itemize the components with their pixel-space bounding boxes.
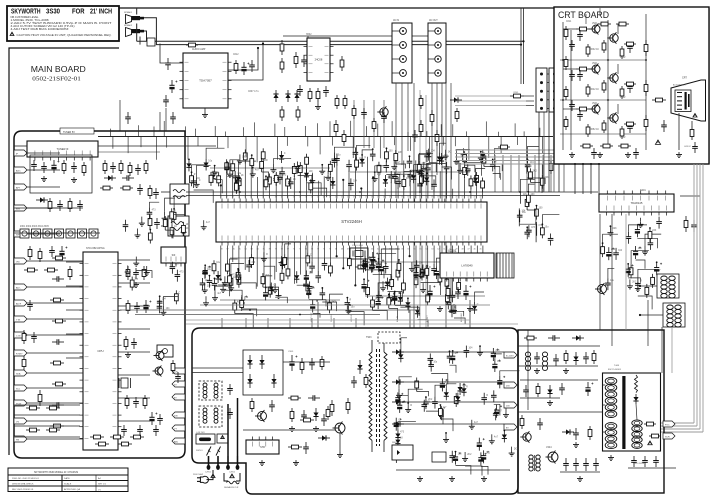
resistor R99 [190,172,194,186]
wire grey bus 2 [186,319,470,321]
ground [259,460,265,466]
wire CRT heater 4 [598,164,600,194]
wire [439,171,441,198]
resistor R66 [377,162,381,176]
wire [680,195,700,197]
junction [251,154,253,156]
capacitor C907 [308,395,320,401]
wire CRT heater 3 [590,164,592,194]
capacitor C156 [361,108,367,119]
title block table [8,468,128,492]
diode D32 [395,436,400,448]
ground [676,152,682,158]
microcontroller IC N701 [80,252,122,450]
wire tab feed 3 [27,186,60,188]
wire audio out R [228,44,263,81]
wire [263,252,265,256]
resistor R103 [250,155,254,169]
wire connector pin 5 [547,107,550,109]
electrolytic capacitor C100 [379,262,387,275]
wire [264,266,275,279]
resistor R111 [417,161,421,175]
resistor R932 [586,84,590,97]
warning symbol [10,32,14,35]
IC N401 E/W correction [599,191,674,216]
diode VD563 [294,90,299,102]
ground [443,437,449,443]
wire [230,281,232,285]
junction [214,278,216,280]
wire deflection mid bus 2 [520,397,560,399]
wire [454,318,465,324]
ground [337,452,343,458]
wire bus drop down 29 [526,137,528,162]
wire [141,217,143,221]
wire [336,165,338,199]
wire FBT tap 2 [603,404,606,406]
svg-text:TDA8145: TDA8145 [631,201,643,205]
wire AV signal 8 [445,83,447,328]
wire [542,164,561,175]
warning symbol [693,114,697,118]
capacitor C116 [525,160,531,172]
net flag 8V [172,394,185,400]
resistor R912b [346,398,350,414]
resistor R43 [46,428,60,432]
inductor LH yoke 2 [669,276,675,298]
wire H bus 1 [186,191,598,193]
diode VD906 [357,360,362,374]
wire key 2 [14,414,80,416]
wire speaker drop 1 [520,8,522,84]
svg-text:22K: 22K [652,230,657,232]
capacitor C449 [559,383,565,395]
wire [426,411,443,424]
wire [278,289,280,293]
resistor R3 [294,52,298,68]
wire audio feed down 2 [165,108,167,131]
wire video bundle 5 [455,163,554,165]
net flag SDA [14,370,27,376]
capacitor C88 [236,270,242,282]
wire [285,244,291,254]
svg-text:V642: V642 [620,97,626,99]
electrolytic capacitor C139 [497,375,505,388]
wire drop 7 [355,318,357,328]
diode D1 [450,97,462,102]
capacitor C153 [432,397,438,409]
svg-text:21: 21 [341,196,343,198]
diode D17 [473,174,478,186]
capacitor CX1 [227,384,233,395]
ground [139,221,145,227]
resistor R114 [420,173,424,187]
speaker terminal block [147,38,155,46]
wire AGC [14,207,83,209]
electrolytic capacitor C84 [203,265,211,278]
junction [610,225,612,227]
resistor R58 [243,149,247,163]
svg-text:AUDIO AMP: AUDIO AMP [192,48,206,51]
wire [137,229,139,233]
resistor R80 [366,284,370,298]
svg-text:V652: V652 [620,137,626,139]
wire [396,164,406,169]
svg-text:N701 8821CPNG: N701 8821CPNG [86,247,105,250]
resistor R128 [445,276,449,290]
diode FBT HV rectifier [633,394,638,404]
junction [407,402,409,404]
crystal X701 [119,378,131,388]
resistor R136 [540,175,544,189]
ground [276,293,282,299]
ground [421,166,427,172]
svg-text:AFC 50HZ: AFC 50HZ [460,312,463,322]
wire [390,182,392,198]
wire key 4 [14,436,80,438]
capacitor C92 [320,288,326,300]
wire [327,171,329,175]
wire [203,220,205,224]
wire [470,246,472,264]
svg-text:VID: VID [16,261,20,263]
capacitor C64 [157,301,163,313]
svg-text:23: 23 [353,196,355,198]
wire [445,150,447,154]
wire [226,246,228,261]
warning symbol [230,474,234,478]
resistor R910 [290,408,294,422]
svg-text:LA78040: LA78040 [461,264,473,268]
svg-text:CZ902: CZ902 [229,472,236,474]
junction [149,229,151,231]
net flag 25V [504,382,517,388]
diode D21 [269,283,274,295]
junction [204,264,206,266]
ground [597,152,603,158]
junction [526,195,528,197]
svg-text:FOR: FOR [72,8,85,15]
wire bus drop down 10 [245,137,247,158]
resistor R27 [24,268,38,272]
capacitor C67 [332,156,338,168]
junction [159,300,161,302]
wire [427,174,429,199]
diode D4 [236,173,241,185]
diode VD561 [273,90,278,102]
wire [442,167,452,180]
junction [386,147,388,149]
IC N201 SIF demod [161,247,186,267]
electrolytic capacitor C129 [635,224,643,237]
resistor R132 [387,294,391,308]
ground [534,368,540,374]
wire CRT G1 [678,113,680,150]
wire [324,246,326,259]
wire [452,246,454,291]
resistor R921 [576,67,590,71]
junction [440,404,442,406]
wire CPU right [118,259,150,261]
electrolytic capacitor C141 [394,418,402,431]
resistor R59 [261,148,265,162]
resistor R102 [235,179,239,193]
ground [261,256,267,262]
wire connector pin 4 [547,99,550,101]
resistor R119 [212,260,216,274]
bridge rectifier box [243,350,283,395]
resistor R7 [343,95,347,109]
resistor R79 [347,255,351,269]
electrolytic capacitor C133 [494,405,502,418]
resistor R109 [482,152,486,166]
junction [209,275,211,277]
junction [299,191,301,193]
wire column 1 [494,155,496,192]
ground [220,287,226,293]
wire [317,302,319,328]
svg-text:A51QDF200X: A51QDF200X [673,84,686,87]
wire bus drop down 4 [156,137,158,160]
wire tab feed 8 [27,302,83,304]
svg-text:53: 53 [431,249,433,251]
resistor R29 [68,266,72,280]
speaker SP2 [126,28,145,37]
wire [222,283,224,287]
wire [348,246,350,256]
capacitor C80 [407,156,413,168]
svg-text:DATE: DATE [64,477,70,480]
wire [161,225,168,227]
wire B+ to FBT [527,330,529,410]
junction [399,292,401,294]
junction [374,171,376,173]
capacitor C442 S-cap [563,458,569,471]
svg-text:67: 67 [347,249,349,251]
component row - ceramic filters [20,229,29,238]
deflection block outline [518,330,664,493]
resistor R61 [286,175,290,189]
resistor R137 [540,224,544,238]
resistor R104 [209,172,213,186]
wire [229,168,231,172]
junction [372,259,374,261]
svg-text:2K2: 2K2 [467,454,472,456]
resistor R42 [26,428,40,432]
capacitor C15 [110,162,116,173]
wire [379,254,397,259]
resistor R131 [425,265,429,279]
wire [640,218,642,222]
wire [407,403,409,407]
capacitor C448 [523,385,529,397]
ground [461,152,467,158]
wire [225,290,242,299]
resistor R21 [48,198,52,212]
capacitor C473 [653,456,659,467]
wire [273,159,291,164]
svg-text:APPROVED QA: APPROVED QA [64,488,80,491]
junction [419,191,421,193]
audio amplifier IC N601 [180,53,232,108]
junction [409,155,411,157]
resistor R12 [455,108,459,122]
wire [308,242,328,252]
wire bus drop down 13 [286,137,288,146]
capacitor C20 [77,200,83,211]
wire [482,191,484,199]
wire [389,308,398,319]
wire [526,164,528,174]
capacitor C8 [323,86,329,97]
junction [359,191,361,193]
wire [476,185,478,199]
svg-text:230V 50HZ: 230V 50HZ [193,474,204,476]
electrolytic capacitor C111 [392,291,400,304]
capacitor C447 [573,428,579,440]
wire [446,384,456,389]
svg-text:4.ADJ TEST RGB BIAS 100IRE/60: 4.ADJ TEST RGB BIAS 100IRE/60HZ [11,28,70,31]
wire column 7 [542,155,544,192]
wire [215,180,223,194]
wire speaker feed [136,9,138,15]
wire [298,176,312,186]
wire tab feed 13 [27,387,83,389]
ground [453,159,459,165]
wire bus drop up 2 [125,131,127,136]
junction [230,280,232,282]
wire bus drop up 15 [317,123,319,136]
junction [191,171,193,173]
junction [627,263,629,265]
junction [230,274,232,276]
wire [535,223,537,242]
wire [227,176,236,186]
FBT HV zigzag [635,375,638,393]
wire video bundle 3 [455,156,554,158]
resistor R148 [394,449,398,463]
wire [194,190,214,203]
wire secondary gnd bus [396,469,510,471]
wire [305,246,307,280]
junction [480,151,482,153]
junction [455,451,457,453]
wire bus drop up 18 [366,126,368,136]
resistor R46 [130,435,144,439]
wire [617,104,619,114]
resistor R49 [126,266,130,280]
capacitor C137 [449,451,455,463]
wire bus drop up 14 [304,126,306,137]
svg-text:REV 0502-21SF02-01: REV 0502-21SF02-01 [12,489,34,491]
net flag 5V [172,381,185,387]
ground [478,156,484,162]
resistor R37 [22,330,26,344]
svg-text:34: 34 [419,196,421,198]
resistor R138 [549,160,553,174]
capacitor C30 [31,332,37,343]
wire [518,208,520,226]
capacitor C54 [315,271,321,283]
wire tab feed 16 [27,438,83,440]
resistor R462 [592,350,596,364]
capacitor C58 [431,264,437,276]
svg-text:32: 32 [407,196,409,198]
wire FBT tap 3 [603,431,606,433]
svg-text:1K: 1K [450,299,453,301]
capacitor C121 [626,232,632,244]
ground [203,300,209,306]
ground [162,216,168,222]
diode D2 [210,171,215,183]
resistor R101 [260,158,264,172]
wire pin feeds [228,398,238,456]
diode VD905 [313,408,318,421]
capacitor C453 [455,287,461,299]
electrolytic capacitor C36 [149,412,157,425]
wire [445,433,447,437]
wire bus drop up 27 [498,132,500,137]
main IC pin numbers [221,196,482,250]
wire [252,167,254,171]
wire CRT rail 2 [570,30,572,150]
diode D31 [457,383,462,395]
power supply block outline [192,328,518,494]
junction [590,163,592,165]
electrolytic capacitor C114 [370,252,378,265]
svg-text:SCALE: SCALE [64,483,72,486]
wire [493,173,501,179]
capacitor C78 [383,161,389,173]
capacitor C55 [322,258,328,270]
resistor R914 [652,98,666,102]
wire [480,152,482,156]
wire [162,306,164,310]
wire [183,226,185,230]
wire [631,251,649,265]
resistor R15 [103,160,107,174]
resistor R146 [415,377,419,391]
svg-text:45: 45 [480,249,482,251]
wire bus drop down 26 [488,137,490,159]
resistor R931 [586,44,590,57]
wire [464,177,466,199]
svg-text:C612: C612 [233,54,239,56]
wire drop 4 [289,318,291,328]
resistor R78 [329,262,333,276]
resistor R916 [250,398,254,412]
junction [188,158,190,160]
wire [165,198,175,212]
resistor R453 [446,285,450,299]
ground [396,393,402,399]
ground [415,169,421,175]
wire [297,285,308,295]
wire tab feed 1 [27,152,60,154]
resistor R23 [148,185,152,199]
capacitor C451 [691,220,697,232]
ground [319,169,325,175]
svg-text:33V: 33V [174,415,178,417]
junction [562,99,564,101]
wire [427,246,429,292]
wire mid bus 4 [135,314,380,316]
ground [509,451,515,457]
net flag VID [14,258,27,264]
wire [484,167,500,178]
wire [617,24,619,34]
junction [249,309,251,311]
